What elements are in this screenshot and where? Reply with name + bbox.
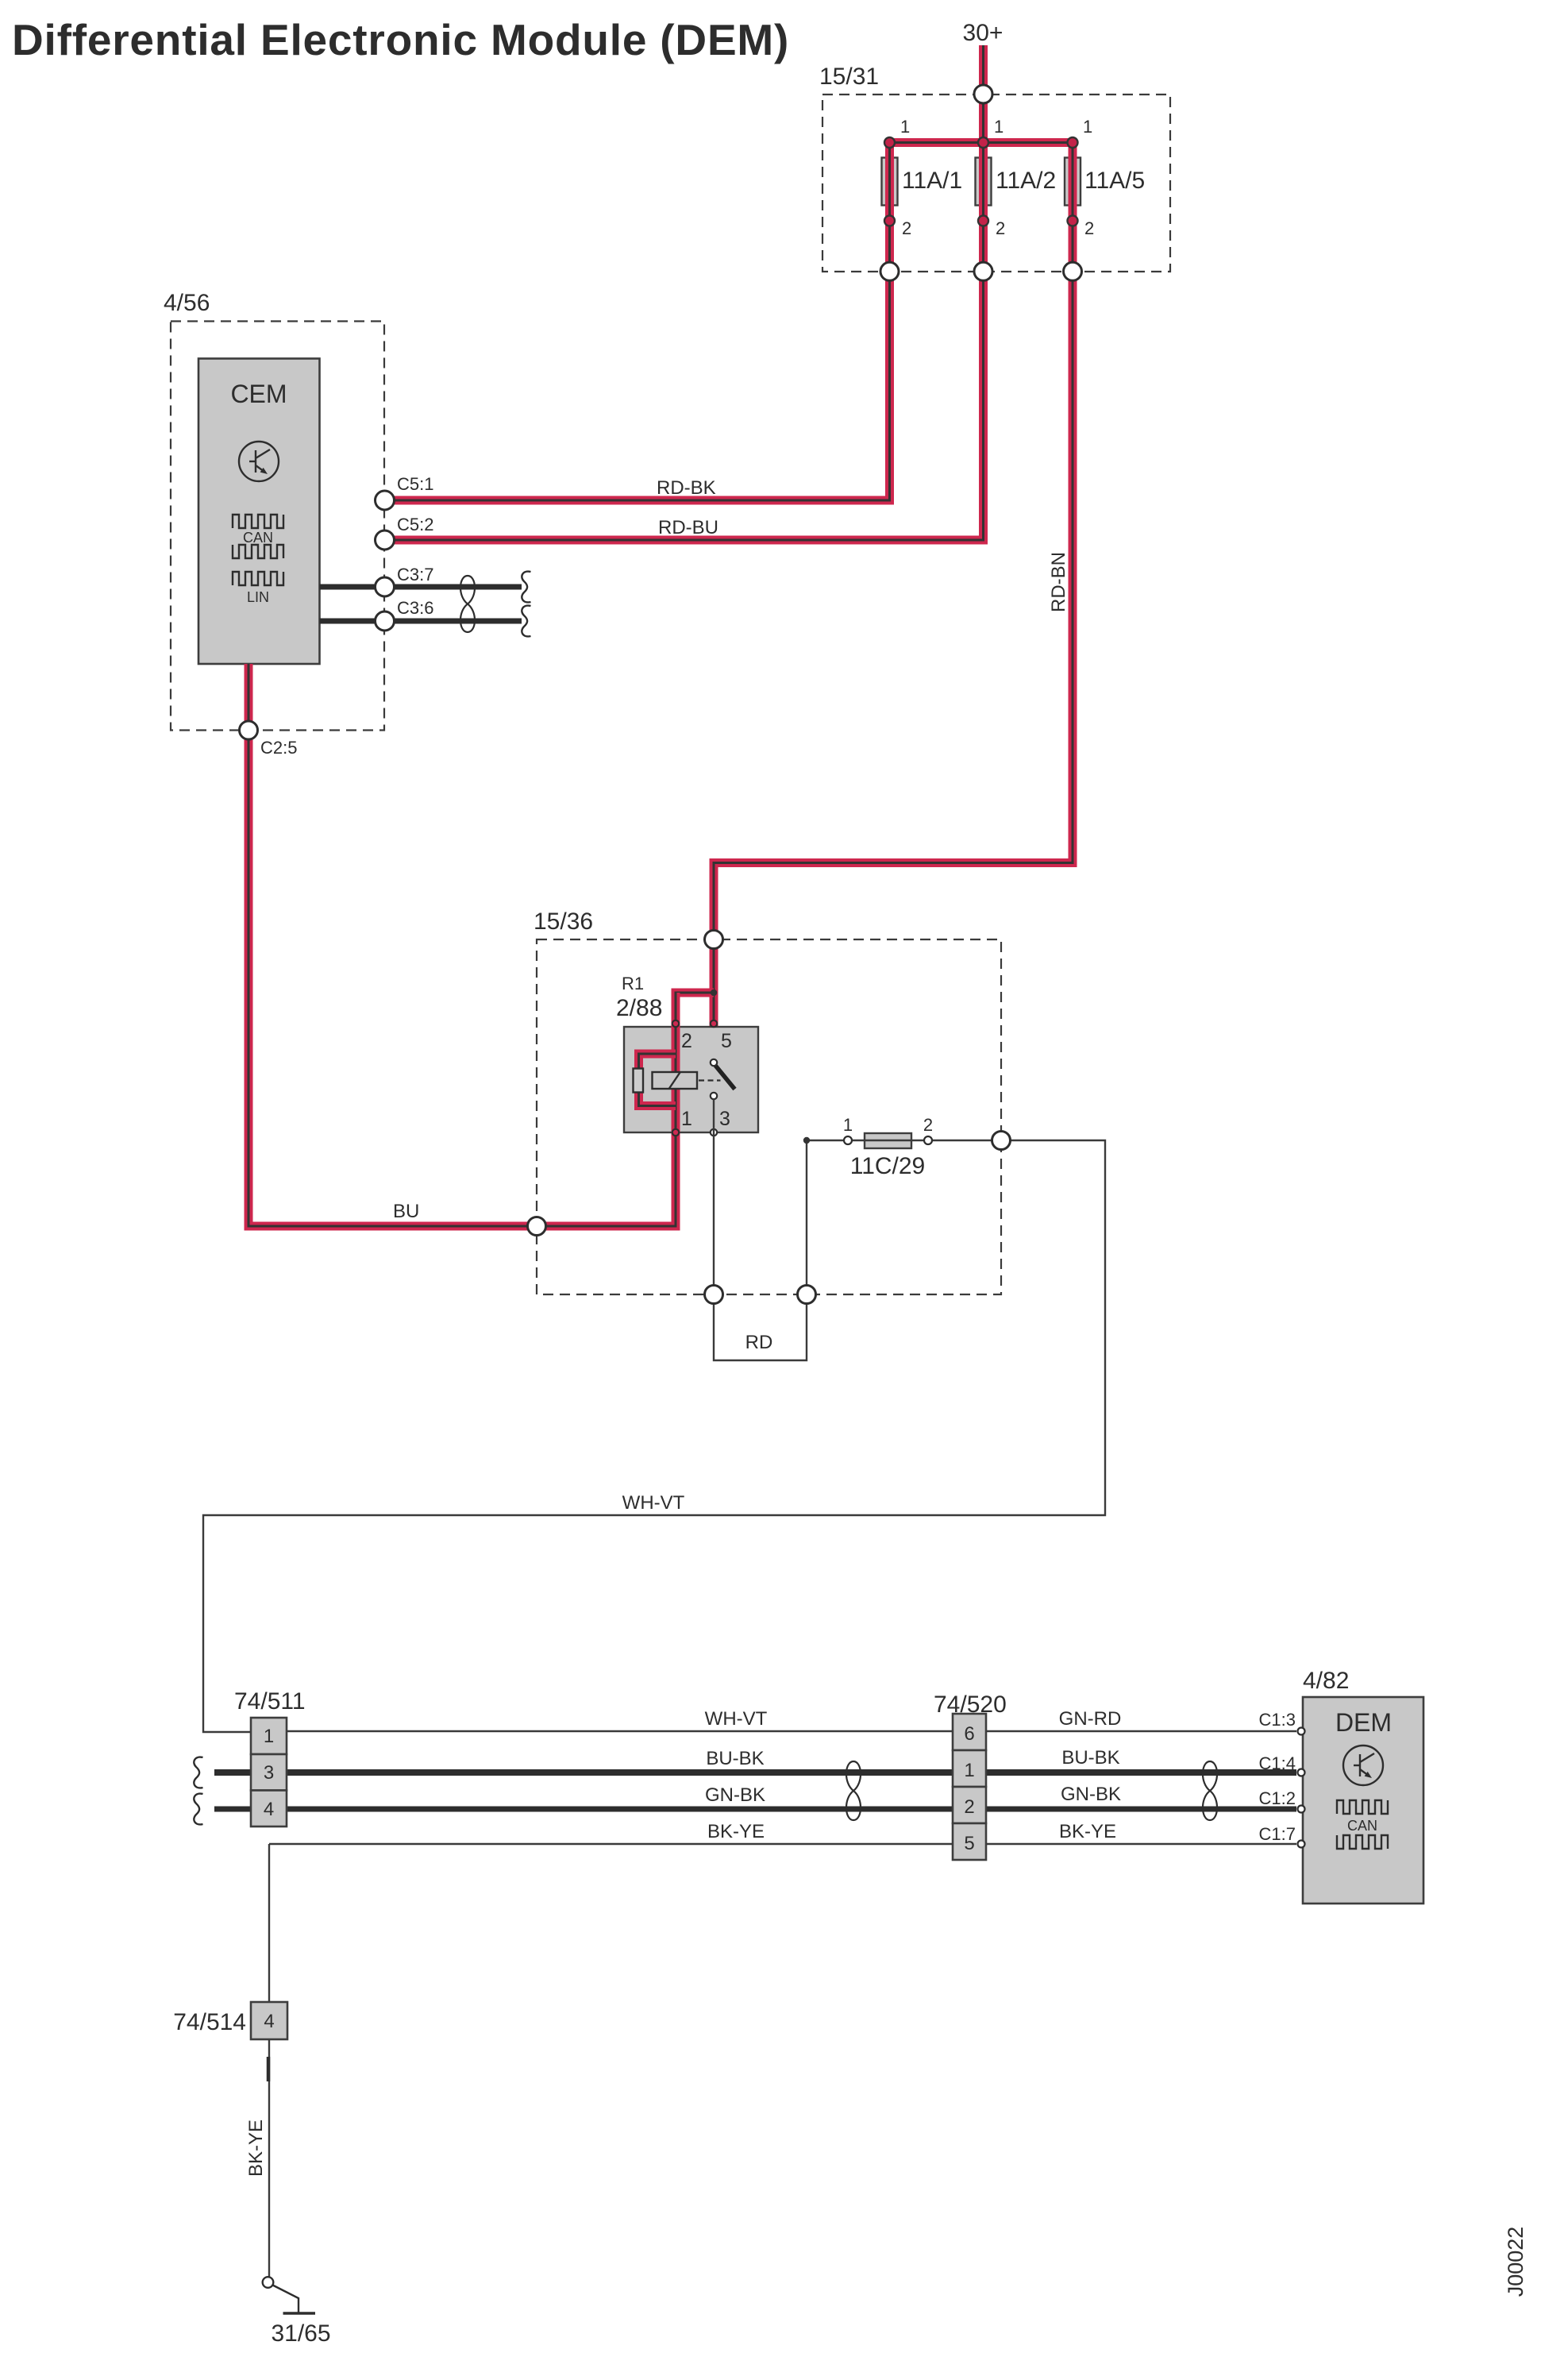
svg-text:4/56: 4/56 xyxy=(164,290,210,316)
svg-text:C1:2: C1:2 xyxy=(1259,1788,1296,1808)
node out of 15/36 bottom left (RD) xyxy=(705,1286,723,1304)
svg-text:C1:7: C1:7 xyxy=(1259,1824,1296,1844)
fuse 11C/29 xyxy=(865,1133,911,1148)
fuse 11A/1 xyxy=(882,158,898,206)
svg-text:1: 1 xyxy=(1083,117,1092,137)
node out of 15/36 bottom right (RD) xyxy=(798,1286,816,1304)
fuse box 15/31 dashed outline xyxy=(822,95,1170,272)
svg-text:2: 2 xyxy=(923,1115,933,1135)
svg-text:RD-BN: RD-BN xyxy=(1048,552,1069,612)
wire BU branch / coil feed (red) xyxy=(248,664,714,1226)
junction pin 1 of fuse 11A/5 xyxy=(1068,137,1078,148)
node into 15/36 left (BU) xyxy=(528,1217,546,1236)
svg-text:R1: R1 xyxy=(622,974,644,993)
svg-text:GN-BK: GN-BK xyxy=(705,1784,765,1806)
relay R1 2/88 body xyxy=(624,1027,758,1132)
svg-text:15/36: 15/36 xyxy=(534,908,593,935)
twisted pair symbol rows2-3 right xyxy=(1203,1761,1217,1820)
svg-text:3: 3 xyxy=(264,1762,274,1784)
svg-text:C1:3: C1:3 xyxy=(1259,1710,1296,1730)
svg-text:C2:5: C2:5 xyxy=(260,738,297,758)
svg-text:11A/1: 11A/1 xyxy=(902,168,962,194)
svg-text:CAN: CAN xyxy=(1347,1818,1377,1834)
twisted pair symbol (LIN wires) xyxy=(460,576,475,632)
svg-text:30+: 30+ xyxy=(963,20,1004,46)
svg-text:J00022: J00022 xyxy=(1504,2227,1527,2297)
wire row1 WH-VT / GN-RD (thin) xyxy=(287,1730,1296,1732)
svg-text:74/514: 74/514 xyxy=(173,2009,246,2035)
svg-text:2: 2 xyxy=(964,1796,974,1818)
relay dashed actuator link xyxy=(699,1079,721,1081)
node into 15/36 top (RD-BN) xyxy=(705,931,723,949)
junction pin 2 of fuse 11A/2 xyxy=(978,216,988,226)
DEM pin C1:4 xyxy=(1298,1769,1305,1776)
relay box 15/36 dashed outline xyxy=(537,939,1001,1294)
DEM transistor icon xyxy=(1343,1745,1383,1785)
wire relay coil through (red) xyxy=(672,993,680,1132)
svg-text:C5:2: C5:2 xyxy=(397,515,433,534)
wire RD-BN (red) xyxy=(714,143,1073,1060)
svg-text:BK-YE: BK-YE xyxy=(707,1821,765,1842)
svg-text:RD-BK: RD-BK xyxy=(657,477,716,499)
svg-text:2: 2 xyxy=(681,1030,692,1052)
connector circle C5:1 xyxy=(376,491,395,510)
svg-text:C3:7: C3:7 xyxy=(397,565,433,584)
svg-text:RD-BU: RD-BU xyxy=(658,517,718,538)
svg-text:BU: BU xyxy=(393,1201,419,1222)
wire LIN C3:7 (black) xyxy=(320,584,522,590)
relay pin circles xyxy=(672,1020,679,1027)
fuse 11A/5 xyxy=(1065,158,1081,206)
wire resistor loop (red) xyxy=(639,1054,676,1106)
junction dot branch xyxy=(711,989,717,996)
svg-text:1: 1 xyxy=(900,117,910,137)
junction pin 1 of fuse 11A/1 xyxy=(884,137,895,148)
svg-text:1: 1 xyxy=(264,1726,274,1747)
DEM CAN icon xyxy=(1337,1800,1388,1849)
svg-text:4/82: 4/82 xyxy=(1303,1668,1349,1694)
wire 11C/29 fuse feed + WH-VT run (thin black) xyxy=(203,1140,1105,1732)
svg-text:2: 2 xyxy=(1084,218,1094,238)
wire LIN C3:6 (black) xyxy=(320,619,522,624)
wire break squiggle BU-BK left xyxy=(194,1757,202,1788)
svg-text:1: 1 xyxy=(964,1760,974,1781)
DEM pin C1:2 xyxy=(1298,1806,1305,1813)
svg-text:31/65: 31/65 xyxy=(271,2320,330,2347)
wire row4 BK-YE (thin) xyxy=(269,1843,1296,1845)
svg-text:GN-BK: GN-BK xyxy=(1061,1784,1121,1805)
svg-text:LIN: LIN xyxy=(247,589,269,605)
svg-text:6: 6 xyxy=(964,1723,974,1745)
svg-text:11C/29: 11C/29 xyxy=(850,1153,926,1179)
svg-text:BU-BK: BU-BK xyxy=(706,1748,764,1769)
svg-text:5: 5 xyxy=(964,1833,974,1854)
DEM pin C1:7 xyxy=(1298,1841,1305,1848)
svg-text:1: 1 xyxy=(681,1108,692,1130)
svg-text:BK-YE: BK-YE xyxy=(245,2120,267,2177)
CEM LIN icon xyxy=(233,572,283,585)
svg-text:1: 1 xyxy=(843,1115,853,1135)
svg-text:74/511: 74/511 xyxy=(234,1688,306,1715)
svg-text:11A/2: 11A/2 xyxy=(996,168,1056,194)
connector circle C3:7 xyxy=(376,577,395,596)
junction pin 1 of fuse 11A/2 xyxy=(978,137,988,148)
fuse 11C/29 pin 2 xyxy=(924,1136,932,1144)
svg-text:4: 4 xyxy=(264,1799,274,1820)
twisted pair symbol rows2-3 mid xyxy=(846,1761,861,1820)
svg-text:C3:6: C3:6 xyxy=(397,598,433,618)
svg-text:BK-YE: BK-YE xyxy=(1059,1821,1116,1842)
CEM transistor icon xyxy=(239,442,279,481)
wire relay pin3 / RD loop (thin black) xyxy=(714,1099,807,1360)
relay switch arm xyxy=(715,1065,735,1090)
wire break squiggle C3:7 xyxy=(522,572,530,603)
svg-text:WH-VT: WH-VT xyxy=(705,1708,768,1730)
svg-text:1: 1 xyxy=(994,117,1004,137)
node out of 15/31 (RD-BN) xyxy=(1064,262,1082,280)
svg-text:Differential Electronic Module: Differential Electronic Module (DEM) xyxy=(12,15,789,64)
DEM pin C1:3 xyxy=(1298,1728,1305,1735)
svg-text:4: 4 xyxy=(264,2011,274,2032)
CEM unit box 4/56 dashed outline xyxy=(171,322,384,731)
relay resistor element xyxy=(634,1069,644,1093)
CEM module box xyxy=(198,359,320,665)
thick wire stub below 74/514 xyxy=(267,2057,271,2081)
wire row3 GN-BK (thick) xyxy=(214,1807,1296,1812)
svg-text:CAN: CAN xyxy=(243,530,273,546)
connector circle C5:2 xyxy=(376,530,395,550)
node out of 15/31 (RD-BU) xyxy=(974,262,992,280)
svg-text:5: 5 xyxy=(721,1030,732,1052)
junction pin 2 of fuse 11A/5 xyxy=(1068,216,1078,226)
relay coil diagonal xyxy=(669,1073,680,1089)
svg-text:C1:4: C1:4 xyxy=(1259,1753,1296,1773)
wire BK-YE vertical to 74/514 xyxy=(268,1844,270,2278)
wire row2 BU-BK (thick) xyxy=(214,1769,1296,1776)
fuse 11C/29 pin 1 xyxy=(844,1136,852,1144)
CEM CAN icon xyxy=(233,515,283,558)
svg-text:2/88: 2/88 xyxy=(616,995,662,1021)
svg-text:2: 2 xyxy=(902,218,911,238)
node out of 15/31 (RD-BK) xyxy=(880,262,899,280)
svg-text:WH-VT: WH-VT xyxy=(622,1492,685,1514)
wire fuse bus (red) xyxy=(890,138,1073,147)
junction dot at 11C/29 xyxy=(803,1137,810,1144)
connector circle 30+ entry xyxy=(974,85,992,103)
DEM module box xyxy=(1303,1697,1423,1904)
connector circle C3:6 xyxy=(376,611,395,631)
svg-text:15/31: 15/31 xyxy=(819,64,879,90)
svg-text:DEM: DEM xyxy=(1335,1708,1392,1737)
fuse 11A/2 xyxy=(976,158,992,206)
svg-text:11A/5: 11A/5 xyxy=(1084,168,1145,194)
svg-text:BU-BK: BU-BK xyxy=(1061,1747,1119,1769)
connector circle C2:5 xyxy=(240,721,258,739)
svg-text:CEM: CEM xyxy=(230,380,287,408)
relay coil box xyxy=(653,1072,698,1089)
svg-text:3: 3 xyxy=(719,1108,730,1130)
svg-text:RD: RD xyxy=(745,1332,773,1353)
svg-text:C5:1: C5:1 xyxy=(397,474,433,494)
wire break squiggle C3:6 xyxy=(522,606,530,637)
node out of 15/36 right (WH-VT) xyxy=(992,1132,1011,1150)
svg-text:2: 2 xyxy=(996,218,1005,238)
svg-text:GN-RD: GN-RD xyxy=(1059,1708,1122,1730)
wire 30+ / RD-BU feed (red with core) xyxy=(395,45,984,540)
junction pin 2 of fuse 11A/1 xyxy=(884,216,895,226)
wire RD-BK (red) xyxy=(395,143,890,501)
wire break squiggle GN-BK left xyxy=(194,1794,202,1825)
ground 31/65 xyxy=(263,2277,274,2288)
